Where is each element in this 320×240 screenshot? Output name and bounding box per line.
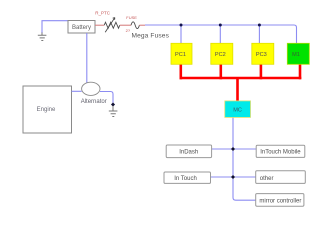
InTouch Mobile (256, 145, 305, 157)
PC3 (252, 43, 274, 64)
wire engine to alternator (72, 90, 82, 92)
wire MC power feed (236, 78, 239, 102)
wire to other (233, 176, 256, 178)
other (256, 171, 306, 184)
junction dot D (231, 147, 235, 151)
svg-text:M1: M1 (292, 52, 300, 58)
controller MC (225, 101, 251, 118)
svg-text:MC: MC (233, 107, 242, 113)
module M1 (287, 43, 309, 64)
svg-text:mirror controller: mirror controller (259, 198, 301, 204)
svg-text:InTouch Mobile: InTouch Mobile (260, 150, 301, 156)
svg-text:In Touch: In Touch (174, 176, 197, 182)
junction dot A (180, 24, 183, 27)
wire to InTouch Mobile (233, 148, 256, 150)
wire PC2 power drop (220, 64, 223, 79)
wire battery to ground (42, 21, 68, 33)
svg-text:R_PTC: R_PTC (95, 10, 111, 15)
wire stub to PC1 (180, 25, 182, 44)
svg-text:FUSE: FUSE (126, 15, 137, 20)
wire PC3 power drop (260, 64, 263, 79)
svg-text:Mega Fuses: Mega Fuses (132, 32, 170, 39)
In Touch (164, 172, 211, 183)
junction dot F (111, 102, 115, 106)
ground GND2 (109, 106, 118, 117)
PC2 (211, 43, 233, 64)
resistor R_PTC (95, 10, 120, 32)
wire PC1 power drop (180, 64, 183, 79)
svg-text:PC1: PC1 (175, 52, 186, 58)
svg-text:PC2: PC2 (215, 52, 226, 58)
wire power bus (180, 77, 302, 80)
svg-text:other: other (260, 176, 274, 182)
wire fuse out (139, 24, 145, 26)
battery BAT1 (68, 21, 95, 34)
svg-text:Engine: Engine (37, 107, 56, 113)
junction dot B (219, 24, 222, 27)
svg-text:PC3: PC3 (256, 52, 267, 58)
fuse F1 (126, 15, 140, 33)
wire alternator to ground (100, 92, 113, 104)
svg-text:InDash: InDash (179, 150, 198, 156)
InDash (166, 145, 211, 158)
alternator G1 (81, 82, 107, 105)
mirror controller (256, 194, 304, 207)
svg-text:Alternator: Alternator (81, 99, 107, 105)
junction dot E (231, 175, 235, 179)
wire battery to alternator (86, 33, 88, 84)
wire battery to R_PTC (95, 24, 104, 26)
engine (23, 86, 72, 133)
wire M1 power drop (299, 64, 302, 79)
wire supply bus (145, 25, 297, 44)
wire R_PTC to fuse (120, 24, 131, 26)
wire MC network trunk (233, 118, 256, 201)
ground GND1 (38, 33, 47, 41)
svg-text:2?: 2? (126, 28, 131, 33)
wire to InDash (212, 148, 233, 150)
wire to In Touch (211, 176, 234, 178)
svg-text:Battery: Battery (72, 25, 91, 31)
PC1 (171, 43, 192, 64)
junction dot C (258, 24, 261, 27)
wire stub to PC3 (258, 25, 260, 44)
wire stub to PC2 (219, 25, 221, 44)
